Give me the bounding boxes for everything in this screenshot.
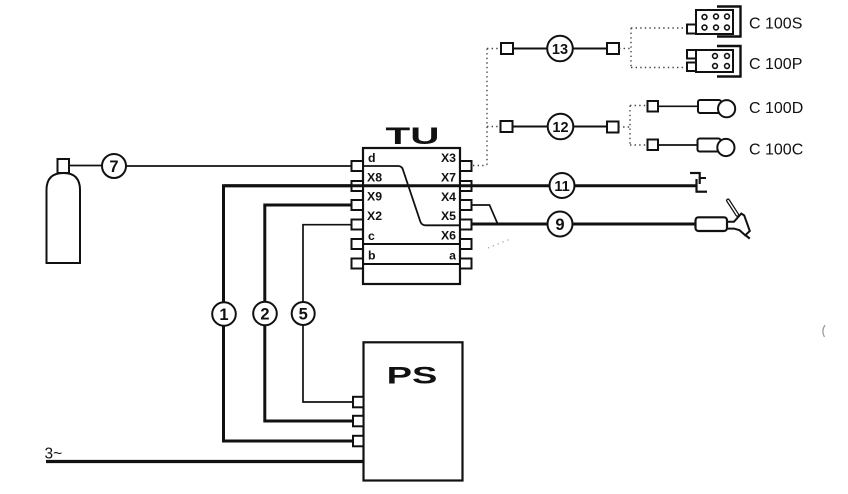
PS tab middle <box>353 416 364 427</box>
svg-text:C 100C: C 100C <box>749 142 803 159</box>
svg-text:7: 7 <box>109 158 118 176</box>
TU pin labels right <box>441 151 456 263</box>
svg-text:a: a <box>449 249 456 263</box>
C100P contact dots <box>713 54 730 69</box>
circle 5 <box>292 302 315 325</box>
TU right tab X4 <box>460 200 472 210</box>
torch handle <box>696 217 728 231</box>
cable 12 left lead <box>513 126 549 128</box>
circle 1 <box>212 302 236 326</box>
C100D knob <box>718 100 735 117</box>
torch head and neck <box>727 214 750 236</box>
svg-text:X3: X3 <box>441 151 456 165</box>
svg-text:C 100S: C 100S <box>749 16 802 33</box>
svg-text:X6: X6 <box>441 229 456 243</box>
C100C lead <box>658 144 700 146</box>
svg-text:X4: X4 <box>441 190 456 204</box>
TU right tab X5 <box>460 220 472 230</box>
wire X4 joining torch cable <box>472 205 498 224</box>
TU left tab d <box>352 161 364 171</box>
work clamp tick <box>700 177 706 179</box>
dotted branch to C100D <box>630 105 648 107</box>
svg-text:5: 5 <box>299 305 308 323</box>
dotted link cable 12 to splitter <box>619 126 631 128</box>
TU divider below b row <box>363 263 460 265</box>
svg-text:PS: PS <box>387 361 438 388</box>
PS tab lower <box>353 436 364 447</box>
PS tab upper <box>353 397 364 408</box>
cable 9: torch cable from X5 <box>472 223 696 226</box>
dotted branch to C100S <box>631 27 687 29</box>
svg-text:TU: TU <box>386 123 440 150</box>
cable 13 left plug <box>501 43 513 54</box>
cable 11: welding current line from X8 through TU and X7 to work clamp <box>224 184 696 187</box>
svg-text:1: 1 <box>219 306 228 324</box>
dotted link cable 13 to splitter <box>619 48 631 50</box>
C100C knob <box>717 139 734 156</box>
svg-text:c: c <box>368 229 375 243</box>
dotted branch to C100C <box>630 144 648 146</box>
cable 12 right plug <box>607 122 619 133</box>
faint scan mark parenthesis <box>823 325 825 337</box>
mains supply line <box>46 460 364 463</box>
dotted link riser to cable 13 plug <box>487 48 501 50</box>
dotted branch to C100P <box>631 67 687 69</box>
C100S contact dots <box>702 14 729 30</box>
dotted link riser to cable 12 plug <box>487 126 501 128</box>
C100P body <box>696 50 733 72</box>
torch back cap <box>728 201 737 215</box>
remote control C100C plug <box>648 140 659 151</box>
PS box <box>364 342 463 480</box>
TU left tab X9 <box>352 200 364 210</box>
C100S body <box>696 10 733 34</box>
circle 12 <box>548 114 574 140</box>
svg-text:b: b <box>368 249 376 263</box>
TU right tab a <box>460 259 472 269</box>
cable 13 left lead <box>513 48 548 50</box>
remote control C100P bracket <box>717 46 741 77</box>
dotted riser to cables 13 and 12 <box>486 49 488 166</box>
TU title <box>386 123 440 150</box>
svg-text:X2: X2 <box>367 209 382 223</box>
remote control C100D plug <box>648 101 659 112</box>
cable 2 run: X9 tab down to PS middle tab <box>265 205 354 421</box>
dotted link X3 to riser <box>473 165 487 167</box>
TU box <box>363 148 460 284</box>
cable 12 left plug <box>501 121 513 132</box>
circle 7 <box>102 154 126 178</box>
svg-text:13: 13 <box>552 42 568 58</box>
C100P plug tab lower <box>687 63 697 72</box>
svg-text:11: 11 <box>554 179 569 195</box>
C100C body <box>698 139 721 152</box>
TU left tab X2 <box>352 220 364 230</box>
svg-text:X5: X5 <box>441 209 456 223</box>
TU pin labels left <box>367 151 382 263</box>
cable 12 right lead <box>574 126 608 128</box>
svg-text:C 100D: C 100D <box>749 100 803 117</box>
wire from circle 7 to TU pin d <box>125 165 353 167</box>
svg-text:d: d <box>368 151 376 165</box>
work clamp upper vertical <box>699 172 701 184</box>
C100P plug tab upper <box>687 50 697 59</box>
svg-text:12: 12 <box>552 120 568 136</box>
circle 11 <box>550 173 575 198</box>
faint dotted scan mark near X6 <box>488 240 509 249</box>
cylinder valve <box>58 159 70 173</box>
circle 13 <box>547 36 573 62</box>
svg-text:9: 9 <box>555 216 564 234</box>
gas cylinder <box>47 173 81 263</box>
circle 9 <box>548 212 573 237</box>
TU inner divider under d with diagonal to X5 row <box>363 166 460 225</box>
wire from valve to circle 7 <box>69 165 103 167</box>
dotted splitter riser for C100S / C100P <box>630 28 632 68</box>
TU divider above b row <box>363 243 460 245</box>
PS title <box>387 361 438 388</box>
TU left tab b <box>352 259 364 269</box>
TU right tab X7 <box>460 181 472 191</box>
TU left tab c <box>352 239 364 249</box>
svg-text:C 100P: C 100P <box>749 56 802 73</box>
work clamp bottom bar <box>696 191 708 193</box>
remote control C100S bracket <box>717 7 741 37</box>
svg-text:X9: X9 <box>367 190 382 204</box>
svg-text:X8: X8 <box>367 171 382 185</box>
TU left tab X8 <box>352 181 364 191</box>
C100D lead <box>658 105 700 107</box>
cable 13 right plug <box>607 43 619 54</box>
svg-text:2: 2 <box>260 305 269 323</box>
C100D body <box>698 100 721 113</box>
dotted splitter riser for C100D / C100C <box>629 106 631 146</box>
work clamp top bar <box>690 172 701 174</box>
cable 1 run: X8 tab down to PS lower tab <box>224 186 355 441</box>
TU right tab X6 <box>460 239 472 249</box>
torch electrode tip <box>745 235 750 239</box>
circle 2 <box>253 302 277 326</box>
cable 5 run: X2 tab down to PS upper tab <box>303 225 354 402</box>
work clamp lower vertical <box>695 179 697 192</box>
svg-text:X7: X7 <box>441 171 456 185</box>
cable 13 right lead <box>573 48 607 50</box>
TU right tab X3 <box>460 161 472 171</box>
C100S plug tab <box>687 25 697 34</box>
